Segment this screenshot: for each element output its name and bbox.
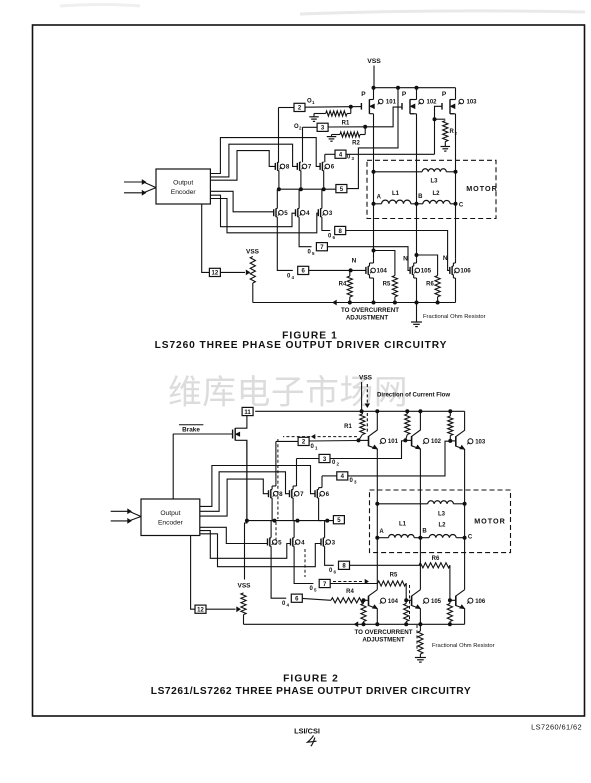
node rail R6 (436, 301, 439, 304)
label O6 (328, 234, 336, 241)
wire Q104 emitter (376, 609, 378, 625)
resistor Rx (435, 119, 448, 146)
transistor Q4 fig2 (291, 538, 306, 547)
label O3 (347, 155, 355, 162)
svg-text:VSS: VSS (237, 583, 251, 590)
svg-text:104: 104 (377, 268, 388, 275)
wire pin2 left (279, 107, 295, 109)
wire Q101 collector (376, 411, 378, 430)
svg-text:0: 0 (350, 478, 354, 484)
label R4 (339, 282, 347, 288)
wire Q103 base wire (450, 440, 456, 442)
label TO OVERCURRENT ADJUSTMENT fig2 (355, 629, 413, 644)
transistor Q8 (275, 162, 290, 171)
fig2 mid bus (247, 520, 334, 522)
wire pin7 to Q105 gate (327, 247, 410, 271)
transistor Q105 (410, 266, 431, 275)
pin box 3 (317, 123, 328, 131)
label Fractional Ohm Resistor (423, 314, 486, 320)
wire pin3 left to O2 node (303, 126, 318, 128)
node Q7-Q4 (299, 188, 302, 191)
rail arrow (333, 301, 336, 305)
label A (377, 195, 382, 201)
fig2 top bus (255, 410, 464, 412)
svg-text:Encoder: Encoder (171, 189, 197, 196)
node rail gnd (415, 301, 418, 304)
label O3 fig2 (350, 478, 358, 485)
fig1 mid bus (279, 188, 336, 190)
node Q8-Q5 (277, 188, 280, 191)
node Q101 base (357, 439, 360, 442)
caption LS7260 line (155, 340, 448, 351)
transistor Q105 fig2 (412, 590, 442, 609)
wire encoder to pin12 (202, 204, 210, 272)
svg-text:11: 11 (244, 410, 251, 416)
pin box 4 (335, 150, 346, 158)
transistor Q7 fig2 (290, 489, 305, 498)
transistor Q104 fig2 (369, 590, 399, 609)
transistor Q5 fig2 (268, 538, 283, 547)
label L1 (392, 191, 400, 197)
wire brake source to pot (246, 440, 248, 520)
node C fig2 (463, 536, 466, 539)
label R5 (383, 282, 391, 288)
wire rail ground stub (416, 303, 418, 323)
node rail R106 (448, 623, 451, 626)
svg-text:103: 103 (467, 100, 478, 106)
svg-text:0: 0 (332, 460, 336, 466)
scan artifact top (60, 5, 585, 15)
svg-text:0: 0 (282, 601, 286, 607)
label R4 fig2 (346, 589, 354, 595)
svg-text:L3: L3 (438, 512, 446, 518)
wire bus corner to Q103 (455, 87, 457, 89)
direction of current flow arrow (365, 384, 369, 433)
svg-text:FIGURE 2: FIGURE 2 (283, 674, 339, 685)
inductor L1 (374, 200, 417, 204)
wire Q8 drain up (278, 161, 280, 163)
transistor Q6 fig2 (315, 489, 330, 498)
label Brake (179, 425, 203, 434)
svg-text:R6: R6 (426, 282, 434, 288)
svg-text:MOTOR: MOTOR (466, 184, 498, 193)
svg-text:5: 5 (284, 210, 288, 217)
pin box 7 (316, 243, 327, 251)
inductor L2 fig2 (420, 534, 464, 537)
svg-text:R2: R2 (352, 141, 360, 147)
node rail R104 (362, 623, 365, 626)
transistor Q3 fig2 (321, 538, 336, 547)
label L2 (432, 191, 440, 197)
wire encoder to Q4 gate (210, 195, 295, 227)
resistor R1 (314, 107, 351, 117)
svg-text:R1: R1 (344, 424, 352, 430)
node rail R4 (348, 301, 351, 304)
node bus Q102 drain (415, 86, 418, 89)
wire Q6 source down (323, 171, 325, 190)
label B fig2 (422, 529, 427, 535)
label R5 fig2 (390, 573, 398, 579)
node A-L3 (372, 170, 375, 173)
wire Q101 emitter down (A) (376, 449, 378, 504)
wire Q5 drain up (277, 189, 279, 208)
svg-text:L2: L2 (438, 523, 446, 529)
label N (Q106) (443, 255, 448, 262)
label R6 fig2 (432, 556, 440, 562)
svg-text:LSI/CSI: LSI/CSI (294, 727, 320, 736)
label R6 (426, 282, 434, 288)
wire phase A upper (373, 161, 375, 172)
label O6 fig2 (329, 568, 337, 575)
wire A inner (373, 172, 375, 204)
svg-text:VSS: VSS (246, 249, 260, 256)
wire Q103 collector (464, 411, 466, 430)
svg-text:R5: R5 (383, 282, 391, 288)
wire phase B down fig2 (419, 538, 421, 590)
wire pin4 left + down to Q6 drain (322, 476, 337, 488)
wire VSS down to bus (373, 66, 375, 88)
wire C inner fig2 (464, 504, 466, 538)
svg-text:P: P (361, 91, 366, 98)
svg-text:0: 0 (347, 155, 351, 161)
svg-text:A: A (377, 195, 382, 201)
svg-text:6: 6 (334, 570, 337, 575)
wire phase A down (373, 204, 375, 259)
node A-L3 fig2 (376, 502, 379, 505)
resistor R4 fig2 (331, 598, 364, 603)
wire Q106 source down (453, 275, 455, 303)
svg-text:N: N (403, 256, 408, 263)
label O2 fig2 (332, 460, 340, 467)
resistor R5 (374, 251, 398, 303)
svg-text:5: 5 (278, 539, 282, 546)
wire Q103 gate riser (435, 106, 443, 154)
pin box 12 (209, 268, 220, 276)
output encoder block fig2 (141, 499, 200, 536)
svg-text:5: 5 (312, 251, 315, 256)
wire Q105 emitter (419, 609, 421, 625)
wire Q103 source down (phase C) (450, 114, 456, 161)
wire Q102 emitter down (B) (419, 449, 421, 538)
resistor Q104 base pulldown (361, 600, 366, 624)
wire Q3 drain fig2 (325, 521, 328, 538)
footer handwritten 4 (308, 736, 317, 747)
svg-text:R4: R4 (339, 282, 347, 288)
svg-text:P: P (442, 91, 447, 98)
wire pin3 to Q102 base (330, 441, 405, 459)
svg-text:R1: R1 (342, 121, 350, 127)
inductor L1 fig2 (377, 534, 420, 537)
wire encoder to Q7 gate (middle route) (210, 144, 297, 177)
label L1 fig2 (399, 522, 407, 528)
svg-text:N: N (352, 258, 357, 265)
svg-text:4: 4 (292, 275, 295, 280)
node bus R102 (406, 410, 409, 413)
label VSS pot fig2 (237, 583, 251, 590)
pin box 2 fig2 (298, 437, 309, 445)
node bus VSS (360, 410, 363, 413)
ground for R2 (327, 137, 337, 142)
wire R5 to Q105 base (406, 584, 412, 601)
label C fig2 (468, 535, 473, 541)
node rail R5 (393, 301, 396, 304)
node bus Q6Q3 (326, 519, 329, 522)
wire pin6 to Q104 gate (309, 269, 366, 271)
node R5-A (372, 249, 375, 252)
wire pin4 left to Q6 drain (325, 154, 335, 162)
wire Q8 drain fig2 (272, 483, 276, 490)
svg-text:L3: L3 (430, 179, 438, 185)
wire Q6 drain fig2 (319, 488, 322, 490)
svg-text:0: 0 (310, 586, 314, 592)
transistor Q104 (366, 266, 387, 275)
wire Q106 drain up (453, 259, 455, 267)
wire pin8 to R6 (350, 564, 421, 566)
wire Q106 emitter (464, 609, 466, 625)
wire Q4 source to pin7 fig2 (294, 546, 313, 583)
wire pin12 to pot wiper (220, 270, 249, 274)
pin box 8 fig2 (339, 561, 350, 569)
svg-text:ADJUSTMENT: ADJUSTMENT (362, 637, 405, 644)
wire pin3 to Q102 gate (328, 107, 402, 127)
svg-text:6: 6 (326, 491, 330, 498)
svg-text:B: B (422, 529, 427, 535)
caption FIGURE 1 (282, 331, 338, 342)
wire R4 to Q104 base (364, 599, 369, 601)
label N (Q105) (403, 256, 408, 263)
wire phase C down fig2 (464, 538, 466, 590)
wire Q6 source fig2 (319, 498, 322, 521)
node Q106 base (448, 599, 451, 602)
svg-text:3: 3 (352, 156, 355, 161)
transistor Q101 (P-ch) (361, 91, 396, 114)
wire Q103 drain up (450, 88, 456, 100)
transistor Q4 (296, 208, 311, 217)
pin box 6 (298, 266, 309, 274)
label Fractional Ohm Resistor fig2 (432, 643, 495, 649)
label O1 fig2 (311, 444, 319, 451)
svg-text:VSS: VSS (367, 58, 381, 65)
resistor Q106 base pulldown (447, 600, 452, 624)
label R2 (352, 141, 360, 147)
transistor Q103 fig2 (456, 430, 486, 449)
wire Q102 base wire (405, 439, 411, 441)
svg-text:102: 102 (431, 439, 442, 445)
svg-text:5: 5 (314, 588, 317, 593)
svg-text:P: P (402, 91, 407, 98)
label L2 fig2 (438, 523, 446, 529)
caption LS7261 line (151, 686, 471, 697)
ground fig2 (415, 658, 426, 663)
wire O1 down to Q8 drain (278, 108, 280, 163)
wire pin12 to pot fig2 (206, 607, 240, 611)
inductor L2 (417, 200, 456, 203)
wire phase B down (416, 204, 418, 259)
svg-text:101: 101 (388, 439, 399, 445)
wire C inner (455, 172, 457, 204)
svg-text:L2: L2 (432, 191, 440, 197)
label MOTOR fig2 (474, 517, 506, 526)
label Rx (450, 129, 458, 136)
label A fig2 (379, 529, 384, 535)
label B (418, 194, 423, 200)
wire pin7 to R5 (330, 583, 377, 585)
wire Q7 drain fig2 (293, 483, 296, 490)
encoder input arrows fig2 (111, 509, 141, 523)
wire R6 to Q106 base (450, 565, 456, 600)
svg-text:Fractional Ohm Resistor: Fractional Ohm Resistor (423, 314, 486, 320)
wire phase C down (455, 204, 457, 259)
svg-text:LS7260/61/62: LS7260/61/62 (531, 723, 582, 732)
svg-text:7: 7 (308, 164, 312, 171)
svg-text:R5: R5 (390, 573, 398, 579)
fig2 VSS label (359, 375, 373, 382)
wire phase A down fig2 (376, 538, 378, 590)
node rail A2 (376, 623, 379, 626)
pin box 2 (294, 103, 305, 111)
svg-text:6: 6 (333, 235, 336, 240)
svg-text:0: 0 (328, 234, 332, 240)
label Direction of Current Flow (377, 392, 450, 399)
transistor Q106 fig2 (456, 590, 486, 609)
transistor Q8 fig2 (269, 489, 284, 498)
node A fig2 (376, 536, 379, 539)
wire Q8 source down (278, 171, 280, 190)
svg-text:x: x (455, 131, 458, 136)
svg-text:6: 6 (331, 164, 335, 171)
pin box 5 fig2 (333, 516, 344, 524)
wire pin6 to R4 (302, 598, 331, 600)
wire pin3 left + down to Q7 drain (297, 459, 320, 483)
caption FIGURE 2 (283, 674, 339, 685)
label MOTOR (466, 184, 498, 193)
svg-text:101: 101 (386, 100, 397, 106)
wire Q8 source fig2 (272, 498, 274, 521)
pin box 12 fig2 (195, 605, 206, 613)
label O4 fig2 (282, 601, 290, 608)
svg-text:1: 1 (312, 100, 315, 105)
svg-text:维库电子市场网: 维库电子市场网 (168, 374, 408, 412)
svg-text:3: 3 (354, 480, 357, 485)
node Q6-Q3 (322, 188, 325, 191)
svg-text:LS7260 THREE PHASE OUTPUT DRIV: LS7260 THREE PHASE OUTPUT DRIVER CIRCUIT… (155, 340, 448, 351)
wire Q3 drain up (322, 189, 324, 208)
transistor Q102 (P-ch) (402, 91, 437, 114)
ground for Rx (441, 147, 451, 152)
wire encoder to pin12 fig2 (191, 536, 195, 610)
svg-text:TO OVERCURRENT: TO OVERCURRENT (355, 629, 413, 636)
svg-text:R4: R4 (346, 589, 354, 595)
fig1 overcurrent rail (253, 302, 456, 304)
wire encoder to Q8 gate fig2 (200, 479, 269, 516)
node C-L3 (454, 170, 457, 173)
svg-text:TO OVERCURRENT: TO OVERCURRENT (341, 307, 399, 314)
wire Q4 drain fig2 (294, 521, 297, 538)
wire encoder to Q6 gate fig2 (200, 466, 315, 507)
label L3 fig2 (438, 512, 446, 518)
wire phase B upper (416, 161, 418, 204)
node B (415, 202, 418, 205)
svg-text:Output: Output (160, 510, 180, 517)
pin box 6 fig2 (291, 594, 302, 602)
wire brake source down (239, 440, 247, 520)
wire Q101 drain up (373, 88, 375, 100)
wire brake down to encoder (172, 434, 174, 499)
wire brake input (173, 433, 233, 435)
node C (454, 202, 457, 205)
wire A inner fig2 (376, 504, 378, 538)
wire pin8 to Q106 gate (346, 231, 450, 271)
wire frac resistor (418, 624, 423, 657)
wire Q105 source down (414, 275, 417, 303)
svg-text:VSS: VSS (359, 375, 373, 382)
wire fig2 VSS down (361, 382, 363, 411)
svg-text:C: C (459, 203, 464, 209)
svg-text:Output: Output (173, 180, 193, 187)
wire encoder to Q5 gate fig2 (200, 527, 268, 543)
node bus Q102c (419, 410, 422, 413)
node rail B2 (419, 623, 422, 626)
svg-text:0: 0 (311, 444, 315, 450)
wire pin2 to Q101 base (309, 440, 358, 443)
wire encoder to Q7 gate fig2 (200, 472, 290, 512)
wire O2 down to Q7 drain (302, 127, 304, 162)
resistor R1 fig2 (359, 411, 366, 440)
svg-text:102: 102 (427, 100, 438, 106)
svg-text:0: 0 (287, 274, 291, 280)
inductor L3 fig2 (377, 501, 464, 504)
svg-text:R6: R6 (432, 556, 440, 562)
svg-text:3: 3 (329, 210, 333, 217)
wire Q5 source to pin6 (277, 217, 293, 270)
label N (Q104) (352, 258, 357, 265)
wire Q4 source to pin7 (299, 217, 311, 247)
label TO OVERCURRENT ADJUSTMENT (341, 307, 399, 322)
svg-text:105: 105 (421, 268, 432, 275)
node R2 tap (364, 125, 367, 128)
node R6-B (415, 254, 418, 257)
label C (459, 203, 464, 209)
pin box 7 fig2 (319, 579, 330, 587)
node Q105 base (405, 599, 408, 602)
node Q102 base (404, 439, 407, 442)
svg-text:8: 8 (279, 491, 283, 498)
svg-text:4: 4 (301, 539, 305, 546)
wire encoder to Q6 gate (outer route) (210, 138, 320, 174)
transistor Q6 (320, 162, 335, 171)
wire encoder to Q5 gate (210, 191, 273, 212)
wire Q102 source down (phase B) (410, 114, 417, 161)
svg-text:2: 2 (299, 126, 302, 131)
svg-text:C: C (468, 535, 473, 541)
resistor Q105 base pulldown (404, 600, 409, 624)
label O1 (307, 99, 315, 106)
resistor R6 fig2 (419, 563, 450, 568)
node bus R103 (449, 410, 452, 413)
svg-text:4: 4 (287, 603, 290, 608)
svg-text:Brake: Brake (182, 427, 200, 434)
pin box 11 (242, 407, 253, 415)
resistor R2 (332, 127, 366, 137)
svg-text:N: N (443, 255, 448, 262)
transistor Q102 fig2 (412, 430, 442, 449)
svg-text:A: A (379, 529, 384, 535)
svg-text:L1: L1 (392, 191, 400, 197)
svg-text:7: 7 (300, 491, 304, 498)
wire pin4 right to Q103 gate (346, 153, 435, 155)
wire Q103 emitter down (C) (464, 449, 466, 504)
svg-text:2: 2 (337, 462, 340, 467)
